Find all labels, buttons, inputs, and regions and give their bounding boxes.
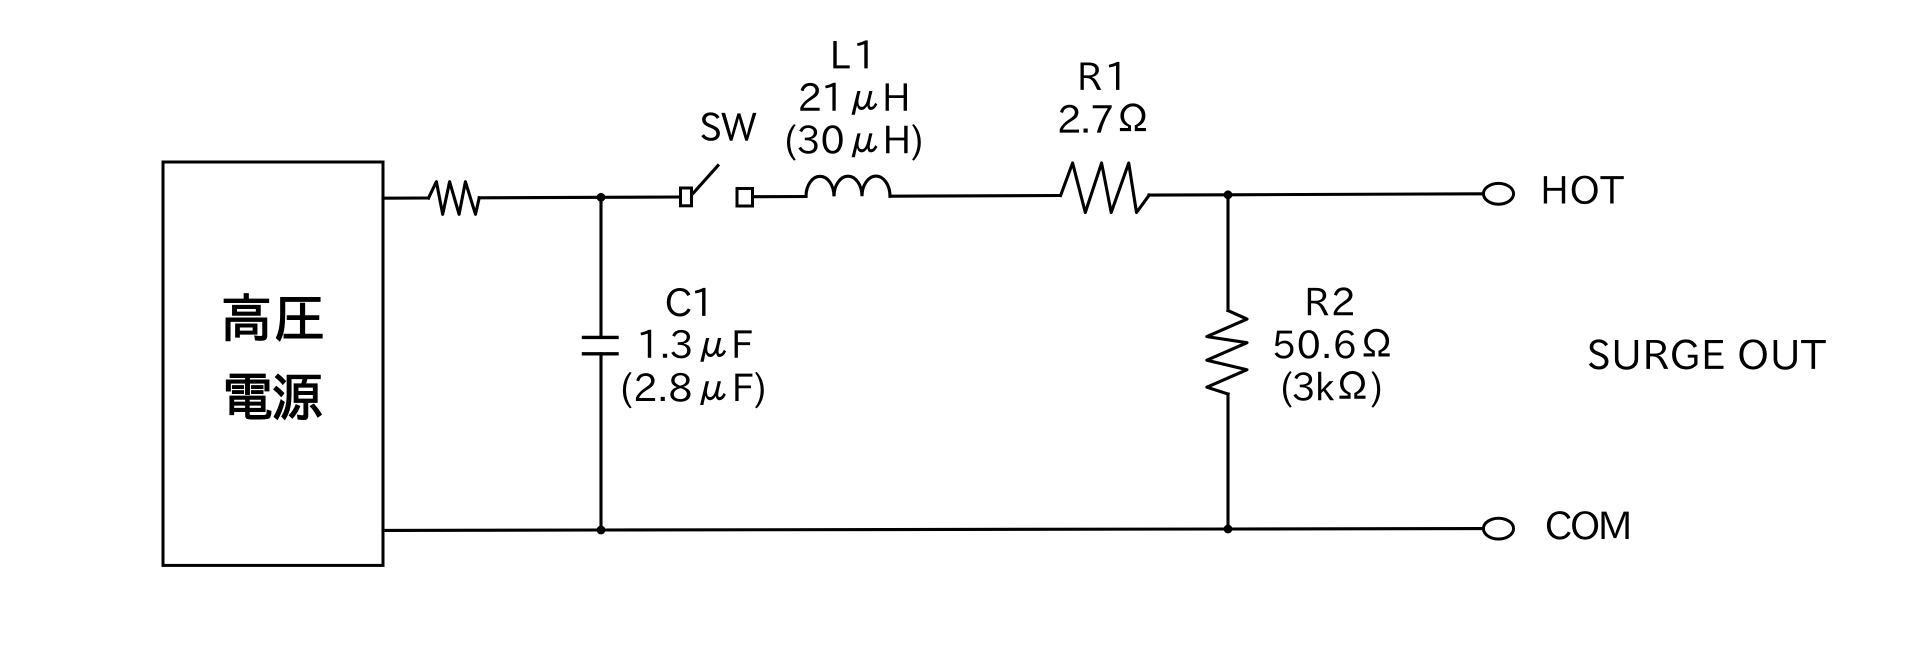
resistor R2 vertical zigzag	[1207, 311, 1247, 394]
switch SW: left contact square	[681, 188, 692, 206]
switch SW: right contact square	[737, 189, 753, 207]
wire: bottom rail, node C to node D	[601, 529, 1228, 530]
label COM	[1547, 511, 1629, 540]
capacitor C1 top plate	[584, 336, 618, 339]
node D: R2 bottom junction dot	[1224, 525, 1233, 534]
value (3kΩ)	[1283, 371, 1380, 408]
value 50.6Ω	[1275, 329, 1390, 359]
value (30µH)	[787, 124, 921, 161]
wire: C1 bottom lead	[599, 354, 602, 530]
node A: C1 tap junction dot	[597, 193, 606, 202]
inductor L1 (3 loops)	[806, 176, 890, 196]
label SURGE OUT	[1589, 339, 1826, 369]
wire: box to series resistor	[383, 196, 429, 199]
label 高圧 (power supply line 1)	[224, 294, 322, 341]
wire: R2 top lead	[1226, 195, 1229, 311]
wire: switch to inductor L1	[754, 195, 806, 198]
wire: node A to switch	[601, 195, 679, 198]
power supply box (高圧電源)	[163, 162, 383, 565]
value (2.8µF)	[623, 372, 764, 409]
value 1.3µF	[641, 330, 752, 362]
node B: R2 tap junction dot	[1224, 190, 1233, 199]
wire: bottom rail, box to node C	[383, 528, 601, 532]
wire: R1 to node B	[1149, 193, 1228, 196]
label C1	[667, 288, 706, 317]
wire: resistor to node A	[479, 196, 601, 200]
wire: node B to HOT terminal	[1228, 194, 1482, 195]
resistor R1 zigzag	[1061, 163, 1150, 213]
switch SW: lever arm	[693, 166, 718, 194]
label R2	[1308, 287, 1353, 315]
value 2.7Ω	[1060, 103, 1146, 132]
label 電源 (power supply line 2)	[227, 374, 322, 419]
capacitor C1 bottom plate	[584, 352, 618, 355]
terminal COM (open circle)	[1483, 518, 1513, 539]
wire: inductor to resistor R1	[890, 194, 1060, 198]
wire: C1 top lead	[599, 197, 602, 337]
label SW	[701, 112, 756, 141]
resistor (series, unlabeled)	[429, 182, 480, 215]
label R1	[1081, 62, 1120, 90]
wire: bottom rail, node D to COM terminal	[1228, 527, 1482, 531]
node C: C1 bottom junction dot	[597, 526, 606, 535]
label L1	[833, 40, 867, 68]
terminal HOT (open circle)	[1483, 183, 1513, 204]
label HOT	[1544, 176, 1624, 205]
value 21µH	[800, 83, 907, 115]
wire: R2 bottom lead	[1226, 394, 1229, 529]
